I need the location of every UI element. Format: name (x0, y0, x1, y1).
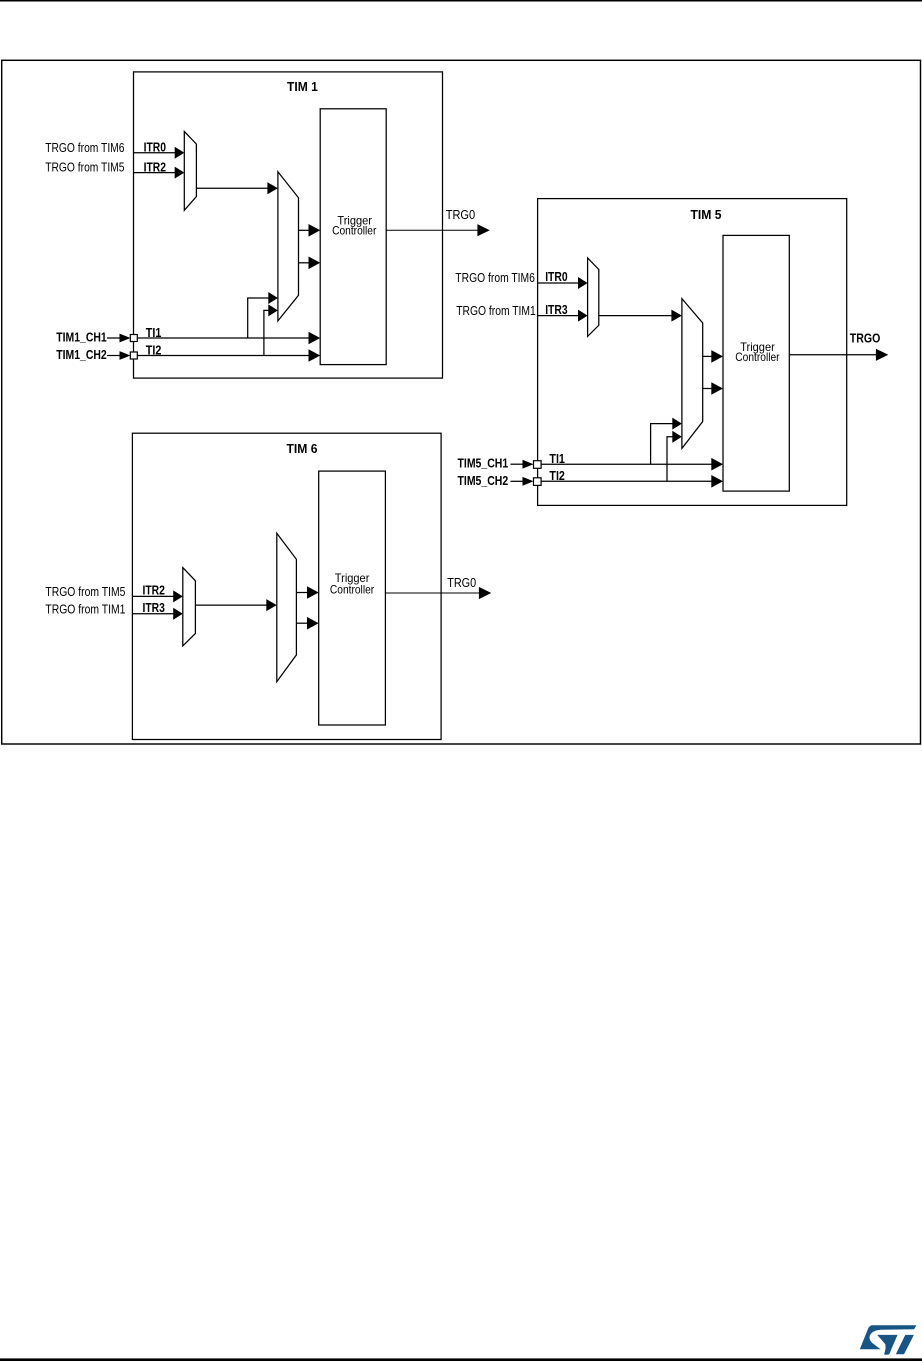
svg-text:TI2: TI2 (146, 342, 162, 357)
wire TI2 branch into mux M5B (667, 437, 675, 482)
svg-text:TRGO from TIM6: TRGO from TIM6 (455, 270, 535, 285)
svg-text:ITR2: ITR2 (144, 159, 166, 174)
block TIM6 outline (132, 433, 441, 739)
wire mux M1B output 1 to trigger controller (299, 229, 314, 231)
wire mux M1A output to mux M1B (196, 187, 269, 189)
wire mux M5A output to mux M5B (599, 315, 673, 317)
trigger controller U1 box (320, 109, 386, 365)
wire mux M6B output 2 to trigger controller (296, 622, 311, 624)
mux M6B (trigger select) (277, 533, 297, 681)
mux M1B (trigger select) (278, 172, 299, 321)
pin pad TIM1_CH2 (130, 352, 137, 359)
block TIM1 outline (134, 72, 443, 378)
svg-text:Controller: Controller (330, 583, 374, 597)
svg-text:TI2: TI2 (549, 468, 565, 483)
pin pad TIM1_CH1 (130, 335, 137, 342)
wire mux M6B output 1 to trigger controller (296, 592, 311, 594)
svg-text:TRGO from TIM1: TRGO from TIM1 (45, 601, 125, 616)
wire mux M5B output 2 to trigger controller (703, 388, 716, 390)
ST logo swoosh (S + top bar) (860, 1325, 917, 1349)
wire ITR2 into mux M6A (132, 595, 175, 597)
figure frame (2, 60, 921, 744)
svg-text:TIM5_CH2: TIM5_CH2 (458, 473, 509, 488)
wire TRG0 output of TIM1 (386, 229, 478, 231)
wire ITR2 into mux M1A (134, 172, 178, 174)
svg-text:TIM 6: TIM 6 (287, 441, 318, 456)
mux M1A (ITR select) (184, 131, 196, 210)
wire ITR3 into mux M6A (132, 613, 175, 615)
wire TI1 to trigger controller U5 (541, 463, 716, 465)
wire TI1 branch into mux M1B (248, 298, 271, 338)
svg-text:TI1: TI1 (146, 325, 162, 340)
wire TI2 branch into mux M1B (264, 310, 271, 355)
mux M6A (ITR select) (183, 568, 196, 646)
trigger controller U5 box (723, 235, 789, 491)
svg-text:ITR0: ITR0 (144, 140, 166, 155)
svg-text:TIM5_CH1: TIM5_CH1 (458, 455, 509, 470)
svg-text:Controller: Controller (332, 224, 376, 238)
svg-text:ITR2: ITR2 (143, 583, 165, 598)
trigger controller U6 box (319, 471, 386, 725)
ST logo T stem (896, 1335, 914, 1354)
svg-text:TI1: TI1 (549, 451, 565, 466)
svg-text:Controller: Controller (735, 350, 779, 364)
wire TIM1_CH1 stub (107, 337, 121, 339)
wire TIM5_CH2 stub (511, 480, 524, 482)
pin pad TIM5_CH1 (534, 461, 542, 469)
wire TRGO output of TIM5 (789, 354, 876, 356)
svg-text:TRG0: TRG0 (447, 575, 476, 590)
wire TI1 branch into mux M5B (651, 424, 675, 465)
svg-text:TRGO from TIM1: TRGO from TIM1 (456, 303, 536, 318)
svg-text:ITR3: ITR3 (143, 600, 165, 615)
svg-text:TIM 1: TIM 1 (287, 79, 318, 94)
wire TI1 to trigger controller (137, 337, 314, 339)
wire mux M6A output to mux M6B (195, 604, 268, 606)
wire ITR0 into mux M5A (538, 282, 581, 284)
ST logo middle pennant (878, 1335, 898, 1355)
svg-text:TIM1_CH2: TIM1_CH2 (56, 347, 106, 362)
svg-text:TRG0: TRG0 (446, 207, 476, 222)
mux M5B (trigger select) (682, 299, 703, 449)
wire TI2 to trigger controller U5 (541, 480, 716, 482)
svg-text:TRGO from TIM5: TRGO from TIM5 (45, 584, 125, 599)
wire ITR0 into mux M1A (134, 152, 178, 154)
svg-text:TRGO from TIM5: TRGO from TIM5 (45, 160, 124, 175)
wire mux M1B output 2 to trigger controller (299, 262, 314, 264)
wire TIM1_CH2 stub (107, 355, 121, 357)
wire TRG0 output of TIM6 (385, 592, 479, 594)
pin pad TIM5_CH2 (534, 478, 542, 486)
wire TI2 to trigger controller (137, 355, 314, 357)
wire TIM5_CH1 stub (511, 463, 524, 465)
block TIM5 outline (538, 199, 847, 506)
svg-text:TIM1_CH1: TIM1_CH1 (56, 329, 106, 344)
header rule (0, 0, 922, 2)
svg-text:ITR0: ITR0 (545, 269, 567, 284)
wire mux M5B output 1 to trigger controller (703, 355, 716, 357)
svg-text:ITR3: ITR3 (545, 302, 567, 317)
svg-text:TRGO: TRGO (850, 331, 881, 346)
svg-text:TRGO from TIM6: TRGO from TIM6 (45, 140, 124, 155)
wire ITR3 into mux M5A (538, 315, 581, 317)
footer rule (0, 1358, 922, 1361)
svg-text:TIM 5: TIM 5 (691, 207, 722, 222)
mux M5A (ITR select) (588, 258, 599, 337)
